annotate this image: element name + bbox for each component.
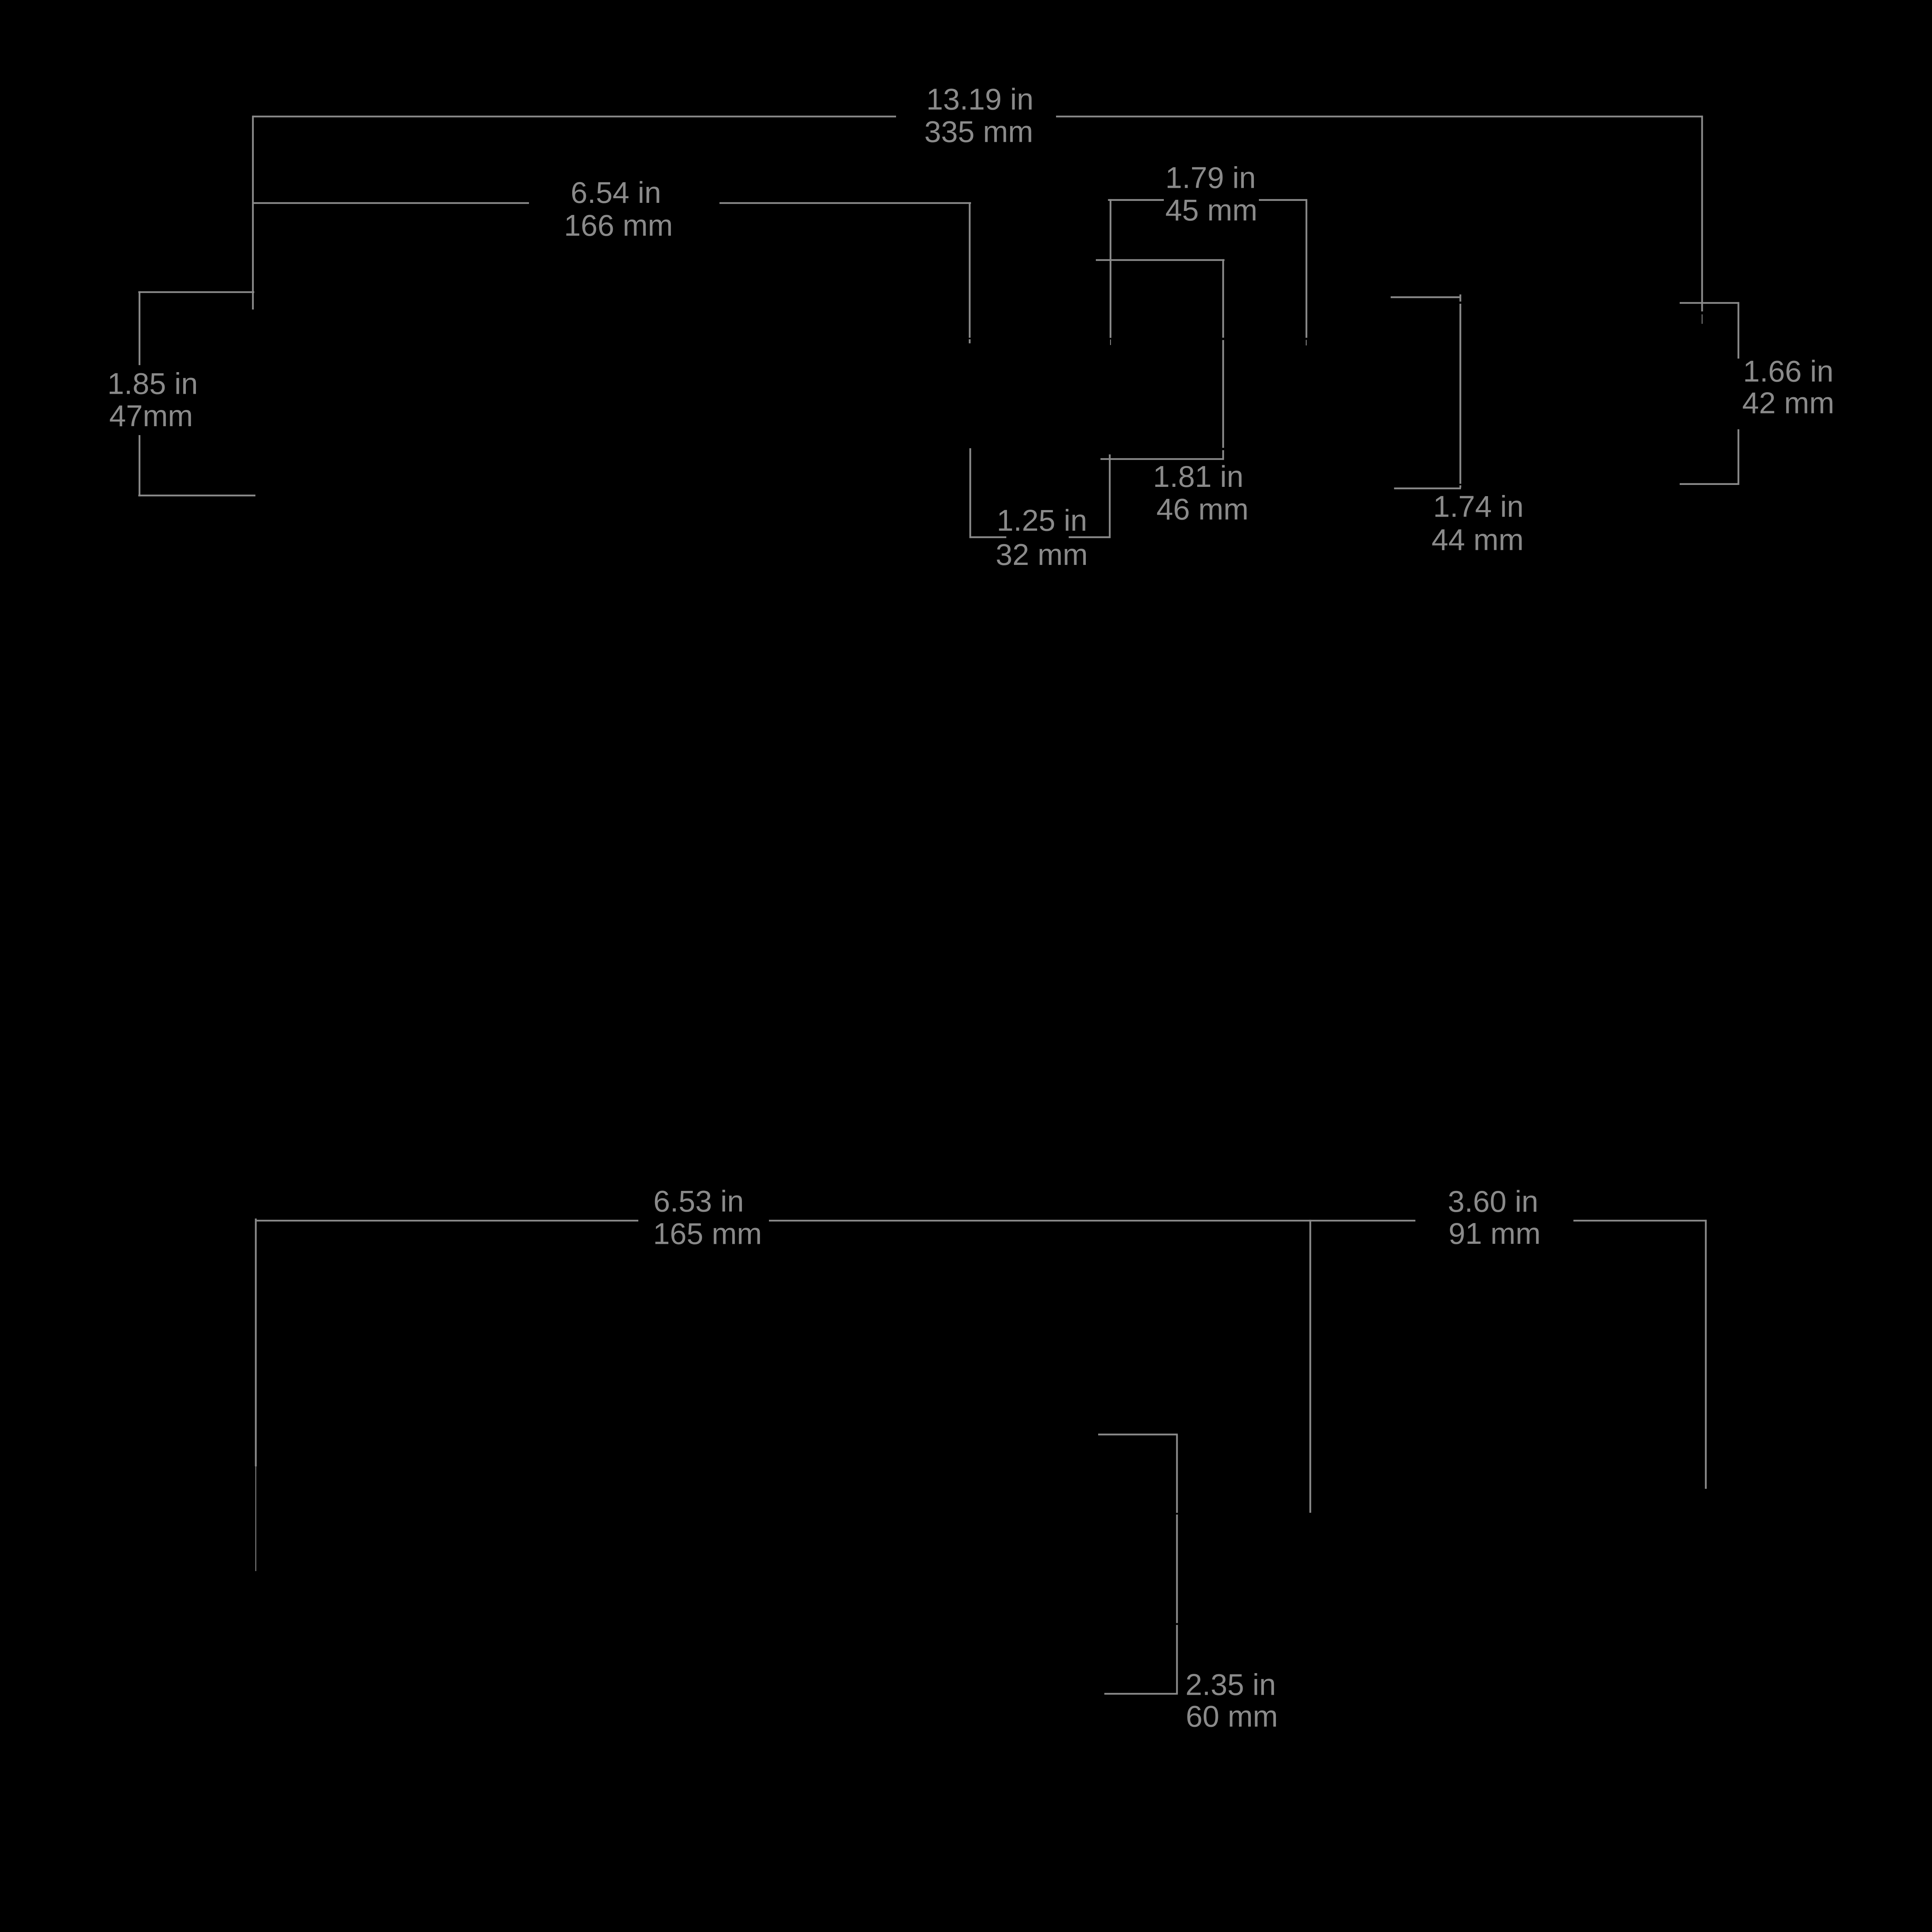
svg-text:1.25 in: 1.25 in bbox=[997, 503, 1087, 537]
svg-text:165 mm: 165 mm bbox=[653, 1216, 762, 1250]
pod right edge a bbox=[1222, 259, 1224, 338]
ext 1.25 left bbox=[969, 448, 971, 538]
pod right edge c bbox=[1222, 450, 1224, 460]
svg-text:2.35 in: 2.35 in bbox=[1185, 1668, 1276, 1702]
tick 2.35 bottom bbox=[1104, 1693, 1178, 1695]
ext bottom-left bbox=[255, 1219, 257, 1467]
dim 13.19in seg-left bbox=[253, 116, 896, 117]
tick 1.85 bottom bbox=[138, 495, 255, 497]
svg-text:60 mm: 60 mm bbox=[1186, 1699, 1278, 1733]
ext 1.74 c bbox=[1459, 485, 1461, 488]
svg-text:1.79 in: 1.79 in bbox=[1165, 160, 1256, 194]
dim 6.53in seg-mid bbox=[769, 1220, 1415, 1222]
dim 1.25in seg-right bbox=[1069, 536, 1111, 538]
dim 1.79in seg-right bbox=[1259, 199, 1307, 201]
ext 1.66 lower bbox=[1738, 429, 1740, 485]
dim 6.54in seg-left bbox=[253, 202, 529, 204]
ext right 6.54 stub bbox=[969, 339, 971, 344]
svg-text:6.53 in: 6.53 in bbox=[653, 1184, 744, 1218]
ext bottom right bbox=[1705, 1220, 1707, 1489]
tick 1.74 top bbox=[1391, 296, 1461, 298]
svg-text:46 mm: 46 mm bbox=[1156, 492, 1248, 526]
tick 1.74 bottom bbox=[1394, 488, 1461, 490]
pod right edge b bbox=[1222, 340, 1224, 448]
ext 1.74 a bbox=[1459, 294, 1461, 302]
ext right 13.19 bbox=[1701, 116, 1703, 311]
ext 1.79 right bbox=[1306, 199, 1308, 338]
ext bottom mid bbox=[1310, 1220, 1311, 1513]
ext 1.66 upper bbox=[1738, 302, 1740, 359]
svg-text:45 mm: 45 mm bbox=[1165, 193, 1257, 227]
svg-text:1.66 in: 1.66 in bbox=[1743, 354, 1833, 388]
tick 1.81 bottom bbox=[1100, 458, 1224, 460]
ext 2.35 c bbox=[1176, 1625, 1178, 1694]
svg-text:44 mm: 44 mm bbox=[1432, 522, 1524, 556]
pod top edge bbox=[1096, 259, 1225, 261]
dim 1.25in seg-left bbox=[969, 536, 1006, 538]
ext left main bbox=[252, 116, 254, 310]
svg-text:3.60 in: 3.60 in bbox=[1448, 1184, 1538, 1218]
ext 1.85 lower bbox=[139, 435, 141, 497]
ext 1.74 b bbox=[1459, 304, 1461, 484]
svg-text:42 mm: 42 mm bbox=[1742, 386, 1834, 420]
svg-text:335 mm: 335 mm bbox=[924, 115, 1033, 149]
dim 6.53in seg-left bbox=[255, 1220, 638, 1222]
ext 1.85 upper bbox=[139, 291, 141, 365]
svg-text:1.85 in: 1.85 in bbox=[107, 367, 198, 401]
svg-text:91 mm: 91 mm bbox=[1449, 1216, 1541, 1250]
ext 1.79 right thin tail bbox=[1306, 340, 1306, 346]
svg-text:6.54 in: 6.54 in bbox=[571, 175, 661, 209]
tick 1.66 top bbox=[1680, 302, 1739, 304]
svg-text:47mm: 47mm bbox=[109, 399, 193, 433]
ext 1.79 left thin tail bbox=[1110, 340, 1111, 345]
ext 1.25 right bbox=[1109, 454, 1111, 538]
svg-text:13.19 in: 13.19 in bbox=[926, 82, 1034, 116]
dim 3.60in seg-right bbox=[1573, 1220, 1707, 1222]
ext 2.35 b bbox=[1176, 1515, 1178, 1623]
ext right 6.54 bbox=[969, 202, 971, 338]
tick 2.35 top bbox=[1098, 1434, 1178, 1435]
svg-text:1.81 in: 1.81 in bbox=[1153, 459, 1243, 493]
svg-text:1.74 in: 1.74 in bbox=[1433, 489, 1524, 523]
dim 1.79in seg-left bbox=[1108, 199, 1164, 201]
svg-text:166 mm: 166 mm bbox=[564, 208, 673, 242]
tick 1.66 bottom bbox=[1680, 483, 1739, 485]
svg-text:32 mm: 32 mm bbox=[996, 537, 1088, 571]
tick 1.85 top bbox=[138, 291, 254, 293]
ext right 13.19 thin tail bbox=[1702, 315, 1702, 324]
ext bottom-left thin bbox=[255, 1466, 256, 1571]
dim 13.19in seg-right bbox=[1056, 116, 1703, 117]
dim 6.54in seg-right bbox=[719, 202, 971, 204]
ext 2.35 a bbox=[1176, 1434, 1178, 1513]
ext 1.79 left bbox=[1110, 199, 1112, 338]
